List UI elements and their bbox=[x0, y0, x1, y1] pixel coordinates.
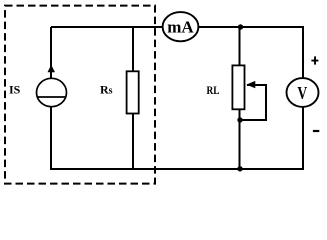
label - bbox=[313, 130, 319, 132]
svg-text:Rs: Rs bbox=[100, 83, 113, 97]
wiper wire bbox=[240, 85, 266, 120]
node junction wiper bbox=[237, 117, 242, 122]
label + bbox=[311, 60, 318, 62]
current source IS arrow bbox=[48, 65, 56, 72]
wire top bbox=[51, 26, 303, 28]
svg-text:RL: RL bbox=[207, 83, 220, 97]
wire RL branch bbox=[239, 27, 241, 169]
wiper arrow bbox=[246, 81, 255, 88]
svg-text:mA: mA bbox=[167, 18, 194, 37]
current source IS bbox=[37, 78, 67, 106]
dashed box (Norton source enclosure) bbox=[5, 6, 155, 184]
node junction top bbox=[238, 24, 243, 29]
wire bottom bbox=[50, 168, 304, 170]
rheostat RL bbox=[232, 65, 244, 109]
wire current-source branch bbox=[50, 27, 52, 169]
resistor Rs bbox=[127, 71, 139, 113]
wire right bbox=[302, 26, 304, 169]
voltmeter V bbox=[287, 78, 319, 107]
wire Rs branch bbox=[132, 27, 134, 169]
ammeter mA bbox=[163, 12, 199, 41]
node junction bottom bbox=[237, 166, 242, 171]
svg-text:V: V bbox=[297, 83, 307, 103]
svg-text:IS: IS bbox=[9, 83, 21, 97]
